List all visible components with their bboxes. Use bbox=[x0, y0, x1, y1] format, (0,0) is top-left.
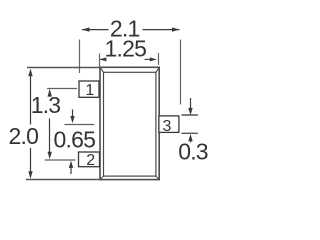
svg-text:1: 1 bbox=[85, 82, 94, 99]
dimension 0.3 lower arrow bbox=[188, 134, 192, 143]
bevel corner bottom-left bbox=[100, 176, 104, 180]
extension line left (overall width, pin edge) bbox=[79, 40, 81, 74]
top extension line (overall height) bbox=[27, 67, 100, 69]
package body inner outline (mold bevel) bbox=[104, 72, 156, 176]
package body outer outline bbox=[100, 67, 159, 179]
dimension 2.1 top overall width bbox=[82, 27, 180, 31]
dimension 0.3 top tick bbox=[182, 114, 198, 116]
pin 2 bbox=[79, 152, 100, 167]
dimension 1.3 (pin1 center to pin2 center) bbox=[48, 89, 52, 160]
extension tick right (body width) bbox=[158, 53, 160, 65]
svg-text:1.3: 1.3 bbox=[31, 92, 61, 118]
dimension 1.25 body width bbox=[99, 57, 157, 61]
pin 1 bbox=[79, 81, 99, 97]
dimension 0.65 upper outside arrow bbox=[70, 110, 74, 124]
bottom extension line (overall height) bbox=[26, 179, 100, 181]
svg-text:0.3: 0.3 bbox=[178, 139, 208, 165]
pin 1 centerline extension bbox=[47, 88, 77, 90]
bevel corner top-left bbox=[100, 67, 104, 72]
dimension 0.3 pin 3 width: upper arrow bbox=[188, 98, 192, 115]
dimension 0.65 lower outside arrow bbox=[69, 161, 73, 174]
svg-text:1.25: 1.25 bbox=[105, 36, 147, 62]
bevel corner top-right bbox=[156, 67, 159, 72]
extension tick left (body width) bbox=[99, 54, 101, 67]
svg-text:2.0: 2.0 bbox=[9, 123, 39, 149]
dimension 0.3 bottom tick bbox=[182, 132, 198, 134]
extension line right (overall width, pin 3 edge) bbox=[180, 40, 182, 105]
svg-text:0.65: 0.65 bbox=[54, 127, 96, 153]
svg-text:2: 2 bbox=[86, 152, 95, 169]
pin 3 bbox=[159, 116, 179, 132]
bevel corner bottom-right bbox=[156, 176, 159, 180]
dimension 2.0 left overall height bbox=[28, 69, 32, 179]
pin 3 centerline projection bbox=[65, 124, 95, 126]
svg-text:3: 3 bbox=[163, 118, 172, 135]
pin 2 centerline extension bbox=[45, 159, 76, 161]
